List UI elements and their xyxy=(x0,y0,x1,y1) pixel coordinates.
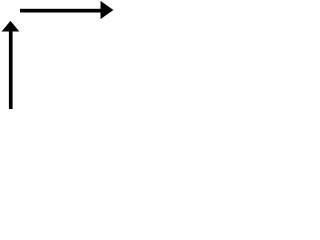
wire horizontal arrow shaft xyxy=(20,9,102,13)
wire vertical arrow shaft xyxy=(9,30,13,109)
horizontal arrow head (points right) xyxy=(101,1,114,19)
vertical arrow head (points up) xyxy=(2,21,20,32)
